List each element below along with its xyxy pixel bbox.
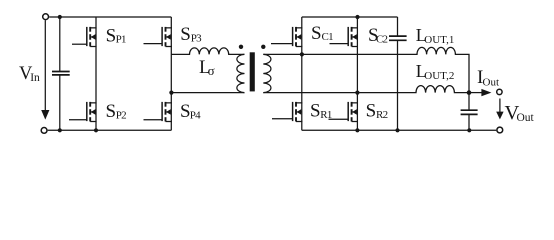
svg-text:R1: R1 [320, 109, 332, 121]
wire output cap branch upper [468, 93, 470, 111]
node: S_R2 drain at bottom bus [355, 91, 359, 95]
V_In voltage arrow [44, 20, 46, 110]
I_Out arrow [469, 92, 482, 94]
primary top rail [49, 16, 171, 18]
node: S_R2 source at bottom rail [355, 128, 359, 132]
svg-text:S: S [106, 101, 117, 122]
secondary bottom rail [302, 129, 497, 131]
transformer T1 core [250, 52, 255, 91]
capacitor C_OUT plates [461, 109, 478, 111]
node: S_C2 drain at top rail [355, 15, 359, 19]
V_Out voltage arrow [499, 99, 501, 113]
svg-text:OUT,2: OUT,2 [424, 70, 454, 82]
svg-text:S: S [180, 24, 191, 45]
wire output cap branch lower [468, 114, 470, 130]
transistor S_P2 [87, 102, 97, 122]
svg-text:S: S [366, 101, 377, 122]
node: output cap at bottom rail [467, 128, 471, 132]
transistor S_C1 [293, 27, 303, 47]
svg-text:Out: Out [483, 77, 500, 89]
svg-text:Out: Out [517, 112, 535, 124]
svg-text:R2: R2 [376, 109, 388, 121]
transistor S_P3 [162, 27, 172, 47]
output terminal top [497, 89, 502, 94]
node: S_C1 source at top bus [300, 52, 304, 56]
transformer T1 primary winding [237, 54, 245, 92]
input terminal bottom [41, 127, 47, 133]
node: clamp branch at bottom rail [395, 128, 399, 132]
node: cap to bottom rail [58, 128, 62, 132]
svg-text:In: In [30, 72, 40, 84]
wire S_C2/S_R2 branch [356, 17, 358, 130]
secondary top bus with inductor L_OUT,1 [263, 47, 469, 92]
wire cap branch upper [59, 17, 61, 71]
wire cap branch lower [59, 75, 61, 130]
wire S_P3 gate stub [144, 43, 163, 45]
capacitor C_C plates [389, 35, 407, 37]
transformer primary phase dot [239, 45, 243, 49]
transistor S_R1 [293, 102, 303, 122]
secondary bottom bus with inductor L_OUT,2 [263, 86, 469, 93]
svg-text:OUT,1: OUT,1 [424, 34, 454, 46]
wire right bridge leg [170, 17, 172, 130]
wire S_P4 gate stub [144, 119, 163, 121]
node: primary bottom tap [169, 91, 173, 95]
wire S_R2 gate stub [329, 118, 349, 120]
input terminal top [43, 14, 49, 20]
wire S_P1 gate stub [72, 43, 87, 45]
svg-text:C1: C1 [322, 31, 334, 43]
primary bottom rail [48, 129, 172, 131]
svg-text:P3: P3 [191, 32, 202, 44]
svg-text:S: S [310, 101, 321, 122]
node: inductor junction [467, 90, 472, 95]
svg-text:C2: C2 [376, 33, 388, 45]
inductor L_sigma [171, 48, 244, 55]
wire S_P2 gate stub [69, 119, 87, 121]
secondary top rail [302, 16, 398, 18]
svg-text:σ: σ [208, 63, 215, 78]
wire S_C1/S_R1 branch [301, 17, 303, 130]
wire clamp branch lower [397, 41, 399, 131]
wire S_C1 gate stub [271, 43, 293, 45]
transformer T1 secondary winding [263, 54, 271, 92]
svg-text:S: S [311, 23, 322, 44]
transistor S_P1 [87, 27, 97, 47]
svg-text:P4: P4 [190, 110, 201, 122]
wire S_C2 gate stub [330, 43, 349, 45]
clamp capacitor branch [397, 17, 399, 36]
node: S_P2 source to bottom rail [94, 128, 98, 132]
transformer secondary phase dot [261, 45, 265, 49]
transistor S_R2 [348, 102, 358, 122]
output terminal bottom [497, 127, 503, 133]
wire left bridge leg [95, 17, 97, 130]
wire S_R1 gate stub [272, 118, 293, 120]
node: top rail to cap junction [58, 15, 62, 19]
transistor S_P4 [162, 102, 172, 122]
svg-text:P2: P2 [116, 110, 126, 122]
wire primary bottom lead [171, 92, 244, 94]
transistor S_C2 [348, 27, 358, 47]
capacitor Cin plates [52, 71, 70, 73]
svg-text:S: S [106, 25, 117, 46]
svg-text:P1: P1 [116, 34, 126, 46]
